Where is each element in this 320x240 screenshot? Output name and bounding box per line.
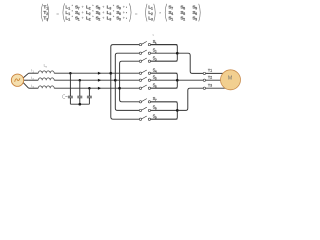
input bus phase 2 (wrap to S2 and S8) [115, 53, 139, 110]
wire: switch S2 output [151, 52, 178, 54]
junction: rail node [78, 103, 81, 106]
wire: phase 1 from source to inductor [29, 72, 39, 74]
svg-text:6: 6 [119, 12, 121, 16]
svg-text:1: 1 [68, 7, 70, 11]
wire: phase 2 from source to inductor [29, 79, 39, 81]
svg-text:6: 6 [195, 12, 197, 16]
switch S6 left contact [139, 87, 141, 89]
switch S3 blade [142, 58, 147, 61]
equation: L vector right paren [154, 4, 155, 22]
wire: T2 to motor [206, 79, 227, 81]
switch S8 left contact [139, 109, 141, 111]
svg-text:3: 3 [151, 18, 153, 22]
switch S4 blade [142, 70, 147, 73]
wire: phase 3 from inductor to input bus [54, 87, 119, 89]
svg-text:+: + [102, 16, 105, 21]
inductor L3 [38, 86, 54, 88]
svg-text:2: 2 [89, 12, 91, 16]
switch S4 left contact [139, 72, 141, 74]
wire: source fan to three phase lines [23, 73, 28, 78]
input bus phase 3 (wrap to S3 and S7) [120, 61, 140, 102]
svg-text:*: * [92, 4, 94, 9]
svg-text:1: 1 [171, 18, 173, 22]
wire: phase 2 from inductor to input bus [54, 79, 115, 81]
switch S4 right contact [148, 72, 150, 74]
svg-text:3: 3 [109, 12, 111, 16]
svg-text:+: + [123, 5, 126, 10]
svg-text:s: s [152, 33, 154, 37]
svg-text:3: 3 [109, 7, 111, 11]
output group bus [151, 45, 178, 62]
svg-text:+: + [123, 16, 126, 21]
junction: cap tap on phase 1 [69, 72, 72, 75]
terminal circle T3 [203, 87, 205, 89]
junction: group output node [176, 109, 179, 112]
equation: T vector left paren [41, 4, 42, 22]
switch S6 blade [142, 85, 147, 88]
svg-text:2: 2 [98, 18, 100, 22]
svg-text:*: * [72, 15, 74, 20]
wire: capacitor common rail [70, 103, 89, 105]
switch S5 blade [142, 77, 147, 80]
terminal circle T2 [203, 79, 205, 81]
terminal circle T1 [203, 72, 205, 74]
svg-text:s: s [46, 66, 48, 69]
svg-text:3: 3 [195, 18, 197, 22]
svg-text:2: 2 [89, 18, 91, 22]
switch S1 right contact [148, 43, 150, 45]
switch S5 right contact [148, 79, 150, 81]
svg-text:1: 1 [46, 7, 48, 11]
wire: T1 jog from group1 [177, 53, 203, 73]
output group bus [151, 102, 178, 119]
svg-text:*: * [92, 9, 94, 14]
switch S9 left contact [139, 118, 141, 120]
switch S2 right contact [148, 52, 150, 54]
svg-text:*: * [159, 11, 161, 16]
input bus phase 1 (wrap to S1 and S9) [111, 45, 140, 120]
svg-text:4: 4 [171, 12, 173, 16]
switch S1 left contact [139, 43, 141, 45]
current arrow on phase 2 [98, 79, 101, 82]
equation: L vector left paren [146, 4, 147, 22]
svg-text:*: * [113, 4, 115, 9]
current arrow on phase 1 [98, 72, 101, 75]
wire: phase 1 from inductor to input bus [54, 72, 111, 74]
switch S7 left contact [139, 101, 141, 103]
svg-text:=: = [135, 12, 138, 17]
svg-text:1: 1 [151, 7, 153, 11]
svg-text:3: 3 [109, 18, 111, 22]
switch S8 right contact [148, 109, 150, 111]
switch S7 blade [142, 99, 147, 102]
wire: switch S3 output [151, 60, 178, 62]
svg-text:1: 1 [68, 18, 70, 22]
wire: T3 to motor [206, 87, 227, 89]
svg-text:1: 1 [68, 12, 70, 16]
switch S9 blade [142, 116, 147, 119]
equation: big expression left paren [63, 3, 65, 21]
wire: switch S9 output [151, 118, 178, 120]
svg-text:3: 3 [119, 18, 121, 22]
switch S2 blade [142, 50, 147, 53]
switch S7 right contact [148, 101, 150, 103]
svg-text:1: 1 [210, 69, 212, 73]
equation: S matrix right paren [199, 4, 200, 22]
switch S5 left contact [139, 79, 141, 81]
junction: group output node [176, 79, 179, 82]
wire: phase 3 from source to inductor [29, 87, 39, 89]
switch S6 right contact [148, 87, 150, 89]
motor M [221, 70, 241, 90]
junction: cap tap on phase 2 [79, 79, 82, 82]
ac source V1 [11, 74, 23, 86]
capacitor C1 [69, 73, 71, 96]
svg-text:2: 2 [151, 12, 153, 16]
wire: T3 jog from group3 [177, 88, 203, 110]
svg-text:+: + [102, 10, 105, 15]
wire: phase3 into switch S6 [120, 87, 140, 89]
inductor L2 [38, 78, 54, 80]
wire: T2 straight from group2 [177, 79, 203, 81]
svg-text:1: 1 [78, 18, 80, 22]
svg-text:4: 4 [78, 12, 80, 16]
wire: switch S6 output [151, 87, 178, 89]
switch S8 blade [142, 107, 147, 110]
label C (curved arrow) [62, 95, 65, 99]
switch S1 blade [142, 41, 147, 44]
junction: group output node [176, 52, 179, 55]
junction: phase2 to bus2 [114, 79, 117, 82]
wire: switch S4 output [151, 72, 178, 74]
svg-text:7: 7 [171, 7, 173, 11]
switch S2 left contact [139, 52, 141, 54]
wire: switch S8 output [151, 109, 178, 111]
switch S3 left contact [139, 60, 141, 62]
svg-text:=: = [56, 12, 59, 17]
svg-text:8: 8 [183, 7, 185, 11]
wire: switch S7 output [151, 101, 178, 103]
wire: phase1 into switch S4 [111, 72, 140, 74]
capacitor C3 [88, 88, 90, 96]
svg-text:2: 2 [210, 76, 212, 80]
svg-text:2: 2 [89, 7, 91, 11]
svg-text:+: + [81, 10, 84, 15]
output group bus [151, 73, 178, 88]
svg-text:+: + [102, 5, 105, 10]
switch S3 right contact [148, 60, 150, 62]
svg-text:*: * [72, 9, 74, 14]
svg-text:9: 9 [119, 7, 121, 11]
equation: T vector right paren [47, 4, 48, 22]
svg-text:*: * [92, 15, 94, 20]
svg-text:+: + [123, 10, 126, 15]
current arrow on phase 3 [98, 87, 101, 90]
svg-text:*: * [113, 9, 115, 14]
svg-text:2: 2 [183, 18, 185, 22]
junction: phase3 to bus3 [118, 87, 121, 90]
svg-text:9: 9 [195, 7, 197, 11]
svg-text:+: + [81, 16, 84, 21]
equation: S matrix left paren [165, 4, 166, 22]
svg-text:*: * [113, 15, 115, 20]
wire: switch S5 output [151, 79, 178, 81]
svg-text:+: + [81, 5, 84, 10]
svg-text:7: 7 [78, 7, 80, 11]
junction: cap tap on phase 3 [88, 87, 91, 90]
svg-text:M: M [228, 75, 232, 81]
svg-text:*: * [72, 4, 74, 9]
wire: T1 to motor [206, 72, 227, 74]
svg-text:8: 8 [98, 7, 100, 11]
svg-text:5: 5 [183, 12, 185, 16]
inductor L1 [38, 71, 54, 73]
capacitor C2 [79, 80, 81, 96]
wire: switch S1 output [151, 44, 178, 46]
wire: phase2 into switch S5 [115, 79, 139, 81]
switch S9 right contact [148, 118, 150, 120]
svg-text:2: 2 [46, 12, 48, 16]
junction: phase1 to bus1 [109, 72, 112, 75]
svg-text:3: 3 [210, 84, 212, 88]
equation: big expression right paren [129, 3, 131, 21]
svg-text:5: 5 [98, 12, 100, 16]
